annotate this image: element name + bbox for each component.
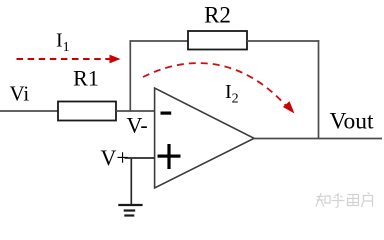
- wire input Vi to R1: [0, 110, 58, 112]
- svg-text:R2: R2: [204, 3, 231, 28]
- svg-text:I1: I1: [56, 30, 70, 56]
- wire feedback right vertical down to output: [318, 40, 320, 139]
- ground: [118, 205, 142, 216]
- svg-text:I2: I2: [225, 81, 239, 107]
- wire top horizontal left to R2: [130, 40, 189, 42]
- op-amp U1: [155, 88, 254, 188]
- wire output to Vout: [254, 138, 382, 140]
- wire feedback left vertical: [129, 40, 131, 112]
- current arrow I2: [143, 63, 295, 113]
- resistor R1: [58, 102, 116, 121]
- watermark: [316, 193, 373, 208]
- resistor R2: [188, 31, 247, 50]
- svg-text:Vout: Vout: [330, 109, 374, 135]
- svg-text:V-: V-: [127, 113, 148, 138]
- current arrow I1: [17, 55, 121, 64]
- svg-text:Vi: Vi: [10, 82, 30, 106]
- wire V+ down to ground: [130, 158, 132, 205]
- svg-text:R1: R1: [73, 66, 99, 91]
- svg-text:V+: V+: [101, 145, 129, 170]
- wire R2 to right vertical: [247, 40, 319, 42]
- wire non-inverting input V+: [125, 157, 155, 159]
- wire R1 to inverting input node: [116, 110, 155, 112]
